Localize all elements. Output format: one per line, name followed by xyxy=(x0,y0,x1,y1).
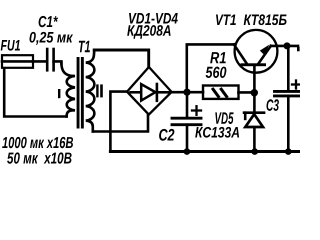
ground rail xyxy=(110,150,300,153)
C3 plus sign xyxy=(292,81,300,89)
note 1000 мк x16В xyxy=(2,137,73,148)
secondary winding II xyxy=(86,50,95,131)
capacitor C3 xyxy=(275,91,301,96)
label КД208А xyxy=(127,25,170,39)
node A dot xyxy=(183,89,190,96)
label КТ815Б xyxy=(244,14,287,25)
output node dot xyxy=(284,42,291,49)
output terminal mark xyxy=(297,47,300,52)
wire fuse to C1 xyxy=(33,60,47,63)
wire R1 to node B xyxy=(239,91,255,94)
wire C3 to ground rail xyxy=(287,96,290,152)
label I xyxy=(58,89,60,98)
emitter arrowhead xyxy=(260,45,270,56)
wire output down to C3 xyxy=(287,46,290,90)
collector wire to node A xyxy=(187,44,234,88)
wire C1 to primary xyxy=(54,61,62,63)
ground dot C3 xyxy=(285,148,292,155)
label VD1-VD4 xyxy=(129,13,178,24)
wire rail node A to R1 xyxy=(187,91,203,94)
wire C2 to ground rail xyxy=(186,125,189,152)
bridge diode symbol xyxy=(131,84,170,101)
capacitor C1 xyxy=(47,49,53,70)
note 50 мк x10В xyxy=(7,152,72,163)
transistor collector diagonal xyxy=(234,44,247,63)
transistor emitter diagonal with arrow xyxy=(259,46,271,64)
fuse FU1 xyxy=(2,55,33,68)
wire node B up to base xyxy=(253,66,256,92)
label КС133А xyxy=(195,127,239,138)
label VD5 xyxy=(215,112,233,124)
zener VD5 xyxy=(244,94,264,152)
transistor VT1 circle xyxy=(235,30,278,73)
capacitor C2 xyxy=(172,118,201,125)
primary winding I xyxy=(61,63,75,117)
node B dot xyxy=(251,89,258,96)
label C2 xyxy=(159,129,174,141)
ground dot VD5 xyxy=(251,148,258,155)
C2 plus sign xyxy=(192,106,201,115)
label VT1 xyxy=(216,15,236,26)
label 0,25 мк xyxy=(30,32,74,45)
label FU1 xyxy=(1,40,20,51)
emitter output wire xyxy=(271,45,298,48)
wire mains left vertical xyxy=(4,69,66,117)
transformer T1 label xyxy=(79,41,90,52)
label R1 xyxy=(210,52,226,63)
wire secondary bottom to bridge bottom xyxy=(93,115,148,132)
label II xyxy=(96,84,103,97)
ground dot C2 xyxy=(184,148,191,155)
wire node A down to C2 xyxy=(186,92,189,117)
resistor R1 xyxy=(203,86,239,99)
wire secondary top to bridge top xyxy=(94,50,149,67)
wire bridge left to ground rail xyxy=(110,92,127,152)
label C3 xyxy=(267,99,279,111)
transformer core xyxy=(77,57,84,129)
wire bridge right to node A xyxy=(172,91,187,94)
label 560 xyxy=(206,67,227,78)
transistor base bar xyxy=(241,63,267,66)
label C1* xyxy=(39,16,58,27)
bridge rectifier VD1-VD4 diamond xyxy=(127,67,172,115)
